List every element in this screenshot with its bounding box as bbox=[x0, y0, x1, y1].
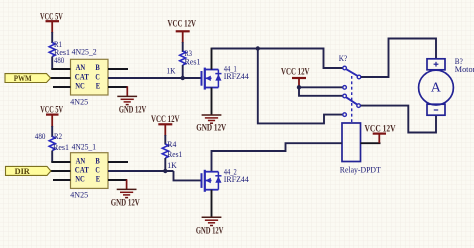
svg-text:4N25_1: 4N25_1 bbox=[72, 143, 96, 152]
port PWM bbox=[5, 73, 51, 83]
power VCC 5V (R2 column) bbox=[40, 105, 63, 128]
relay K? label bbox=[339, 54, 348, 63]
svg-text:4N25: 4N25 bbox=[70, 190, 88, 200]
pin U2 NC bbox=[53, 179, 71, 181]
svg-text:DIR: DIR bbox=[15, 166, 31, 176]
wire R3 to gate wire bbox=[182, 65, 184, 78]
svg-text:4N25: 4N25 bbox=[70, 97, 88, 107]
wire jog to Q2 gate bbox=[174, 171, 202, 180]
pin U1 NC bbox=[53, 86, 71, 88]
svg-text:Res1: Res1 bbox=[185, 58, 201, 67]
pin U2 CAT bbox=[51, 170, 71, 172]
svg-text:Res1: Res1 bbox=[53, 143, 69, 152]
optocoupler U1 4N25_2 bbox=[70, 47, 108, 106]
svg-text:K?: K? bbox=[339, 54, 348, 63]
wire VCC to throw B1 bbox=[299, 87, 343, 96]
resistor R2 bbox=[35, 132, 69, 152]
svg-text:VCC 5V: VCC 5V bbox=[40, 105, 63, 115]
power VCC 12V (relay throws) bbox=[281, 66, 310, 87]
transistor Q1 44_1 IRFZ44 bbox=[202, 64, 250, 89]
resistor R4 bbox=[162, 140, 182, 170]
wire Q1 source down bbox=[211, 88, 213, 116]
relay blade switch A bbox=[346, 69, 357, 75]
svg-text:Relay-DPDT: Relay-DPDT bbox=[340, 165, 381, 174]
resistor R3 bbox=[167, 49, 201, 76]
svg-text:480: 480 bbox=[54, 56, 64, 65]
wire R2 to AN pin bbox=[51, 151, 53, 163]
wire U2 C to R4 junction bbox=[108, 170, 174, 172]
svg-text:R2: R2 bbox=[54, 132, 62, 141]
junction VCC relay bbox=[297, 85, 301, 89]
wire U2 E to ground bbox=[126, 179, 128, 189]
svg-text:4N25_2: 4N25_2 bbox=[72, 47, 97, 56]
svg-text:NC: NC bbox=[75, 174, 85, 184]
pin U1 B bbox=[108, 68, 128, 70]
svg-text:NC: NC bbox=[75, 80, 85, 90]
ground GND 12V (Q1) bbox=[196, 115, 226, 132]
wire Q1 drain up bbox=[211, 48, 213, 70]
wire switch A common to motor + bbox=[361, 39, 436, 78]
wire R1 to AN pin bbox=[51, 57, 53, 70]
svg-text:PWM: PWM bbox=[14, 73, 32, 83]
pin coil right bbox=[361, 142, 381, 144]
svg-text:A: A bbox=[431, 80, 442, 95]
svg-text:GND 12V: GND 12V bbox=[119, 104, 147, 114]
wire R4 to gate wire bbox=[164, 158, 166, 171]
power VCC 12V (coil) bbox=[365, 124, 396, 144]
svg-text:VCC 5V: VCC 5V bbox=[40, 11, 63, 21]
ground GND 12V (U1) bbox=[117, 96, 146, 114]
junction top rail bbox=[256, 46, 260, 50]
optocoupler U2 4N25_1 bbox=[70, 143, 108, 200]
transistor Q2 44_2 IRFZ44 bbox=[202, 167, 250, 192]
svg-text:GND 12V: GND 12V bbox=[196, 122, 226, 132]
relay blade switch B bbox=[346, 97, 357, 104]
ground GND 12V (Q2) bbox=[196, 217, 224, 235]
wire U1 E to ground bbox=[126, 86, 128, 96]
wire VCC5V to R1 bbox=[51, 32, 53, 43]
svg-text:GND 12V: GND 12V bbox=[111, 198, 140, 208]
junction R3/gate bbox=[181, 76, 185, 80]
port DIR bbox=[6, 166, 51, 176]
wire coil left to Q2 drain bbox=[212, 143, 343, 172]
relay contact circles switch B bbox=[343, 94, 361, 116]
svg-text:R4: R4 bbox=[167, 140, 177, 149]
svg-text:480: 480 bbox=[35, 132, 46, 141]
svg-text:Motor: Motor bbox=[455, 65, 474, 74]
svg-text:Res1: Res1 bbox=[167, 150, 182, 159]
power VCC 5V (top, R1 column) bbox=[40, 11, 63, 33]
svg-text:1K: 1K bbox=[167, 161, 177, 170]
resistor R1 bbox=[49, 40, 70, 65]
svg-text:GND 12V: GND 12V bbox=[196, 226, 224, 236]
relay coil K? Relay-DPDT bbox=[340, 123, 381, 174]
relay contact circles switch A bbox=[343, 66, 361, 89]
relay actuator dashed line bbox=[351, 76, 353, 123]
wire U1 C to gate of Q1 bbox=[108, 77, 202, 79]
wire VCC to throw A2 bbox=[299, 86, 343, 88]
svg-text:IRFZ44: IRFZ44 bbox=[224, 72, 250, 81]
wire switch B common to motor - bbox=[361, 106, 436, 133]
svg-text:VCC 12V: VCC 12V bbox=[151, 114, 180, 124]
svg-text:1K: 1K bbox=[167, 67, 176, 76]
junction R4/gate bbox=[163, 169, 167, 173]
pin U2 B bbox=[108, 161, 128, 163]
pin U1 CAT bbox=[51, 77, 71, 79]
svg-text:IRFZ44: IRFZ44 bbox=[224, 175, 250, 184]
svg-text:VCC 12V: VCC 12V bbox=[168, 19, 197, 29]
wire VCC to R3 bbox=[182, 42, 184, 52]
pin U1 E bbox=[108, 86, 128, 88]
wire top rail to relay bbox=[212, 49, 343, 69]
wire Q2 source down bbox=[211, 190, 213, 218]
motor B? bbox=[419, 57, 474, 115]
power VCC 12V (R4 column) bbox=[151, 114, 180, 136]
pin U2 AN bbox=[51, 161, 70, 163]
wire VCC to R4 bbox=[164, 135, 166, 145]
wire branch to relay lower throw bbox=[258, 49, 343, 124]
svg-text:E: E bbox=[96, 174, 101, 184]
wire VCC5V to R2 bbox=[51, 126, 53, 137]
svg-text:VCC 12V: VCC 12V bbox=[281, 66, 310, 76]
pin U2 E bbox=[108, 179, 127, 181]
ground GND 12V (U2) bbox=[111, 189, 140, 207]
svg-text:E: E bbox=[96, 80, 101, 90]
power VCC 12V (R3 column) bbox=[168, 19, 197, 43]
svg-text:VCC 12V: VCC 12V bbox=[365, 124, 396, 134]
pin U1 AN bbox=[51, 68, 70, 70]
